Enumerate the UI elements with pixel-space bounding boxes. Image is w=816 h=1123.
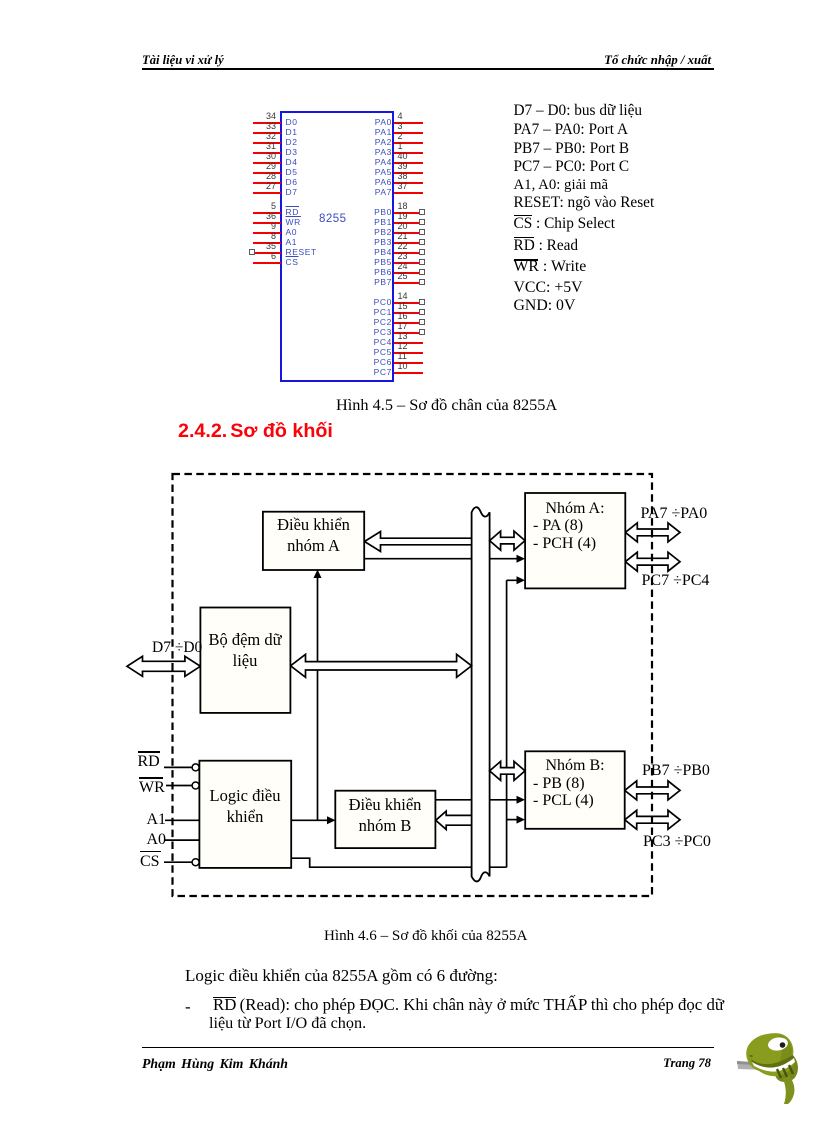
pin 40 PA4 (right) [0,0,816,1]
pin 18 PB0 (right) [0,0,816,1]
gecko mascot image [737,1031,805,1105]
pin 25 PB7 (right) [0,0,816,1]
block diagram of 8255A [100,460,720,910]
label: control logic [199,785,291,827]
pin 10 PC7 (right) [0,0,816,1]
label PB7-PB0 [642,761,710,780]
pin 3 PA1 (right) [0,0,816,1]
pin 14 PC0 (right) [0,0,816,1]
legend block [514,102,643,120]
pin 21 PB3 (right) [0,0,816,1]
label: data buffer [200,629,290,671]
overline RD bullet [213,997,236,998]
section heading 2.4.2 [178,420,333,443]
box: group B ports [525,751,625,829]
footer author [142,1056,288,1072]
internal data bus [472,507,490,881]
overline RD [514,237,535,238]
pin 6 CS (left) [0,0,816,1]
PC7-PC4 double arrow [625,552,680,571]
wire vertical up into group A ctrl box [317,577,319,820]
pin 2 PA2 (right) [0,0,816,1]
pin 17 PC3 (right) [0,0,816,1]
label A0 input [147,830,167,849]
label: group A control [263,514,364,556]
bullet dash [185,997,191,1017]
pin 16 PC2 (right) [0,0,816,1]
pin 24 PB6 (right) [0,0,816,1]
label A1 input [147,810,167,829]
bus arrow into group B control [436,811,472,829]
pin 29 D5 (left) [0,0,816,1]
external D7-D0 double arrow [127,656,200,676]
header right [0,53,711,68]
pin 1 PA3 (right) [0,0,816,1]
dashed chip outline [173,474,653,896]
PA7-PA0 double arrow [625,523,680,542]
label: group B ports [525,757,625,810]
wire WR input [166,785,192,787]
wire A0 input [165,839,199,841]
bullet line 1 [213,995,724,1015]
arrowhead right (A ctrl wire) into Port A group [517,555,526,563]
label: group A ports [525,500,625,553]
pin 37 PA7 (right) [0,0,816,1]
bubble WR [192,782,199,789]
header left: document title [142,53,224,68]
box: read/write control logic [199,761,291,868]
pin 32 D2 (left) [0,0,816,1]
header rule [142,68,714,70]
label WR input [139,778,165,797]
box: group B control [335,791,435,848]
label PA7-PA0 [641,504,708,523]
caption fig 4.5 [336,395,557,415]
overline CS input [140,851,161,852]
label: group B control [335,794,435,836]
bus-PortB double arrow [490,761,525,780]
footer page number [0,1056,711,1071]
IC name 8255 [319,213,347,225]
pin 4 PA0 (right) [0,0,816,1]
pin 11 PC6 (right) [0,0,816,1]
pin 23 PB5 (right) [0,0,816,1]
pin 5 RD (left) [0,0,816,1]
pin 34 D0 (left) [0,0,816,1]
wire: group A control to Group A port [364,558,517,560]
wire: logic ctrl to group B ctrl [291,819,328,821]
paragraph intro [185,966,498,986]
PC3-PC0 double arrow [625,810,680,829]
overline WR [514,259,539,260]
pin 20 PB2 (right) [0,0,816,1]
pin 9 A0 (left) [0,0,816,1]
pin 12 PC5 (right) [0,0,816,1]
IC body 8255 [280,111,394,382]
bus-PortA double arrow [490,531,525,550]
pin 22 PB4 (right) [0,0,816,1]
pin 28 D6 (left) [0,0,816,1]
overline CS [514,215,532,216]
pin 35 RESET (left) [0,0,816,1]
pin 19 PB1 (right) [0,0,816,1]
label RD input [138,752,160,771]
pin 39 PA5 (right) [0,0,816,1]
pin 36 WR (left) [0,0,816,1]
pin 8 A1 (left) [0,0,816,1]
overline RD input [138,751,160,752]
box: group A control [263,512,364,570]
pin 33 D1 (left) [0,0,816,1]
arrowhead right into Port A group [517,576,526,584]
wire RD input [164,766,192,768]
PB7-PB0 double arrow [625,781,680,800]
label CS input [140,852,160,871]
wire vertical node line [507,580,517,867]
pin 30 D4 (left) [0,0,816,1]
pin 38 PA6 (right) [0,0,816,1]
label D7/D0 [152,638,202,657]
wire: node to Port B group lower [507,819,517,821]
arrowhead right into Port B group lower [517,816,526,824]
caption fig 4.6 [324,928,527,945]
box: group A ports [525,493,625,588]
wire CS input [164,861,192,863]
bubble CS [192,859,199,866]
wire A1 input [165,819,199,821]
overline WR input [139,777,163,778]
pin 15 PC1 (right) [0,0,816,1]
pin 13 PC4 (right) [0,0,816,1]
data buffer to internal bus double arrow [291,654,472,677]
bus arrow into group A control [365,532,472,552]
arrowhead up into group A ctrl [314,570,322,579]
bubble RD [192,764,199,771]
pin 31 D3 (left) [0,0,816,1]
wire: group B ctrl to Port B group [436,799,518,801]
bullet line 2 [209,1014,366,1033]
pin 27 D7 (left) [0,0,816,1]
label PC7-PC4 [642,571,710,590]
arrowhead right into group B ctrl [327,816,336,824]
wire: stepped line logic ctrl to internal node [291,858,507,867]
arrowhead right into Port B group [517,796,526,804]
footer rule [142,1047,714,1049]
label PC3-PC0 [643,832,711,851]
box: data bus buffer [200,608,290,713]
